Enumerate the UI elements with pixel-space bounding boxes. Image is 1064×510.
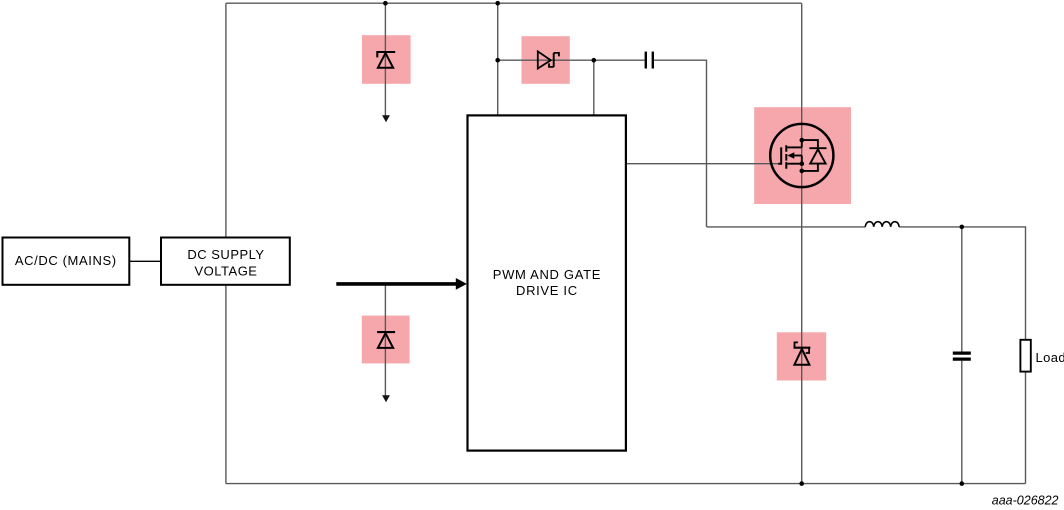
MOSFET Q1: [770, 124, 833, 187]
wire branch to zener D1: [384, 3, 386, 116]
wire capacitor C1 to switch node: [654, 60, 707, 227]
svg-text:DC SUPPLY: DC SUPPLY: [187, 247, 264, 262]
junction dot top rail / D1: [383, 1, 388, 6]
junction source dot: [800, 161, 805, 166]
highlight box over MOSFET Q1: [754, 107, 851, 204]
junction dot schottky row: [495, 58, 500, 63]
junction dot bottom rail / diode branch: [799, 481, 804, 486]
wire left rail upper: [225, 3, 227, 237]
block AC/DC (MAINS): [3, 238, 130, 285]
junction dot output node: [960, 225, 965, 230]
highlight box over schottky D2: [522, 36, 570, 84]
svg-text:AC/DC (MAINS): AC/DC (MAINS): [15, 253, 117, 268]
schottky diode D4: [794, 342, 811, 364]
wire load to bottom rail: [1025, 372, 1027, 484]
diode D3: [377, 332, 395, 348]
block PWM AND GATE DRIVE IC: [468, 115, 626, 450]
junction dot bottom rail / cap branch: [960, 481, 965, 486]
wire switch node horizontal: [707, 226, 866, 228]
block DC SUPPLY VOLTAGE: [161, 238, 290, 285]
wire capacitor C2 to bottom rail: [961, 361, 963, 484]
svg-text:VOLTAGE: VOLTAGE: [195, 263, 258, 278]
arrowhead end of D3 branch: [382, 395, 390, 402]
capacitor C1: [646, 52, 653, 69]
svg-text:PWM AND GATE: PWM AND GATE: [493, 267, 601, 282]
zener diode D1: [377, 52, 395, 68]
load resistor: [1020, 340, 1064, 372]
junction drain dot: [800, 138, 805, 143]
junction dot cap row: [592, 58, 597, 63]
wire between blocks: [130, 260, 161, 262]
arrowhead end of D1 branch: [382, 115, 390, 122]
wire right vertical through MOSFET: [801, 3, 803, 483]
schottky diode D2: [538, 51, 559, 68]
junction dot top rail / IC left: [495, 1, 500, 6]
highlight box over diode D3: [362, 316, 410, 364]
inductor L1: [865, 222, 899, 227]
svg-text:DRIVE IC: DRIVE IC: [516, 283, 578, 298]
wire gate drive to MOSFET: [626, 163, 779, 165]
wire output node to capacitor C2: [961, 227, 963, 352]
svg-text:Load: Load: [1036, 350, 1064, 365]
wire horizontal through schottky D2: [498, 59, 645, 61]
capacitor C2: [953, 353, 971, 359]
wire left rail lower: [225, 285, 227, 484]
wire branch to IC pin left: [497, 3, 499, 115]
wire top rail: [226, 2, 802, 4]
highlight box over zener D1: [362, 35, 411, 84]
svg-text:aaa-026822: aaa-026822: [992, 493, 1059, 507]
wire branch to diode D3: [384, 284, 386, 396]
input arrow to IC: [336, 278, 467, 290]
junction body diode dot: [800, 169, 805, 174]
wire from IC pin right up: [593, 60, 595, 115]
figure reference label: [992, 493, 1059, 507]
highlight box over schottky D4: [777, 332, 826, 380]
wire inductor to output node: [899, 227, 1025, 340]
wire bottom rail: [226, 483, 1026, 485]
